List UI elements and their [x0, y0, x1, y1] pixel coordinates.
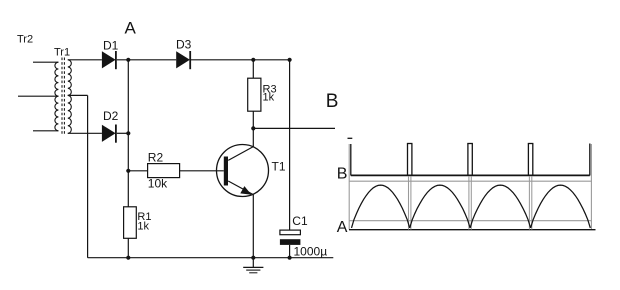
value label 1k (R3) [263, 92, 275, 104]
resistor R2 [148, 164, 180, 178]
junction dot C1 on rail [288, 256, 292, 260]
waveform rectified arch 4 [531, 185, 591, 228]
svg-text:10k: 10k [148, 177, 168, 191]
node B label [326, 91, 339, 112]
label Tr2 [17, 34, 33, 46]
waveform label A [337, 219, 348, 236]
junction dot at top-right corner [288, 58, 292, 62]
junction dot at D1 cathode (node A) [126, 58, 130, 62]
waveform plot left axis [348, 138, 353, 229]
capacitor C1 [280, 230, 301, 245]
svg-text:B: B [326, 91, 339, 112]
diode D1 [102, 51, 116, 69]
junction dot at R2 branch [126, 169, 130, 173]
waveform rectified arch 1 [352, 185, 410, 228]
label R3 [263, 84, 277, 96]
label D2 [103, 109, 119, 123]
transistor T1 [217, 145, 269, 197]
junction dot at D2 cathode [126, 131, 130, 135]
wire D3 cathode to top-right corner [191, 59, 290, 61]
junction dot R1 bottom on rail [126, 256, 130, 260]
wire top rail to R3 [252, 60, 254, 78]
wire collector to node B [252, 128, 254, 146]
wire emitter down to ground rail [252, 195, 254, 258]
svg-text:A: A [337, 219, 348, 236]
resistor R1 [124, 207, 137, 239]
diode D2 [102, 125, 116, 143]
wire main vertical from node A down to R1 [127, 60, 129, 207]
wire primary center stub [18, 95, 58, 97]
label R2 [148, 150, 164, 164]
wire ground rail [88, 257, 334, 259]
svg-text:D3: D3 [176, 38, 192, 52]
junction dot emitter on rail [251, 256, 255, 260]
wire R2 right to base of T1 [180, 170, 224, 172]
resistor R3 [248, 78, 261, 111]
label D3 [176, 38, 192, 52]
svg-text:A: A [125, 19, 137, 38]
svg-text:R2: R2 [148, 150, 164, 164]
wire junction to R2 left [128, 170, 147, 172]
svg-text:Tr2: Tr2 [17, 34, 33, 46]
waveform label B [337, 166, 348, 183]
ground [243, 258, 263, 273]
waveform baseline A [349, 229, 596, 231]
waveform rectified arch 2 [410, 185, 470, 228]
svg-text:T1: T1 [272, 160, 286, 174]
wire D1 cathode to node A junction and on to D3 anode [117, 59, 176, 61]
node A label [125, 19, 137, 38]
wire primary top stub [33, 61, 58, 63]
wire secondary top to D1 anode [68, 59, 102, 61]
wire R1 bottom to ground rail [127, 238, 129, 257]
svg-text:B: B [337, 166, 348, 183]
waveform charging pulse 3 [528, 144, 534, 230]
svg-text:1000µ: 1000µ [294, 245, 328, 259]
value label 10k [148, 177, 168, 191]
wire node B output line [253, 127, 335, 129]
svg-text:C1: C1 [292, 214, 308, 228]
label D1 [103, 39, 119, 53]
value label 1000µ [294, 245, 328, 259]
label T1 [272, 160, 286, 174]
junction dot at node B [251, 126, 255, 130]
wire secondary bottom to D2 anode [68, 132, 102, 134]
label C1 [292, 214, 308, 228]
svg-text:1k: 1k [137, 221, 149, 233]
waveform charging pulse 1 [407, 144, 413, 230]
svg-text:D2: D2 [103, 109, 119, 123]
value label 1k (R1) [137, 221, 149, 233]
waveform charging pulse 2 [467, 144, 473, 230]
svg-text:D1: D1 [103, 39, 119, 53]
svg-text:1k: 1k [263, 92, 275, 104]
wire primary bottom stub [33, 130, 58, 132]
svg-text:Tr1: Tr1 [54, 47, 70, 59]
waveform plot right axis [590, 144, 592, 230]
diode D3 [176, 51, 190, 69]
wire C1 bottom to rail [289, 245, 291, 258]
wire top-right corner down to C1 [289, 60, 291, 230]
waveform level B line [351, 174, 590, 176]
wire secondary center tap horizontal [68, 94, 88, 96]
wire secondary center tap down to ground rail [87, 95, 89, 257]
wire D2 cathode to junction [117, 132, 129, 134]
waveform gray line below B [349, 180, 592, 182]
waveform gray line above baseline [349, 220, 591, 222]
junction dot at R3 top [251, 58, 255, 62]
label Tr1 [54, 47, 70, 59]
waveform rectified arch 3 [470, 185, 530, 228]
transformer Tr1 [55, 58, 71, 136]
wire R3 bottom to node B [252, 111, 254, 128]
label R1 [137, 211, 151, 223]
